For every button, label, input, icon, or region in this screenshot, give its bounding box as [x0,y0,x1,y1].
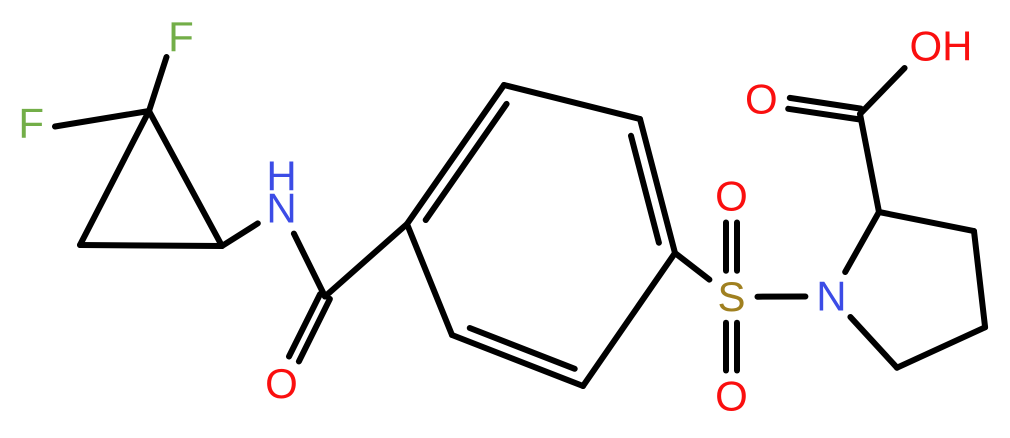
amide C4=O double line2 [299,299,330,362]
pyrrolidine C7-C8 [879,212,974,231]
bond C6-OH [860,68,905,114]
bond S-N2 [758,294,806,300]
pyrrolidine C9-C10 [897,327,985,367]
bond C3-N amide [222,223,258,246]
cyclopropane edge C2-C3 [80,245,222,246]
svg-text:N: N [816,273,846,320]
carboxyl C6=O double line1 [790,98,861,109]
svg-text:F: F [168,13,194,60]
benzene inner double L-T [426,104,507,220]
svg-text:F: F [18,100,44,147]
sulfonyl S=O bottom line2 [734,323,740,371]
carboxyl C6=O double line2 [788,109,859,120]
benzene edge L-T [407,85,504,224]
svg-text:O: O [745,75,778,122]
pyrrolidine C10-N2 [850,317,897,368]
bond N-C4 amide [294,234,325,297]
svg-text:N: N [266,185,296,232]
pyrrolidine N2-C7 [845,212,879,272]
pyrrolidine C8-C9 [974,231,985,327]
benzene edge BL-L [407,224,452,335]
benzene inner double TR-R [631,136,659,243]
sulfonyl S=O bottom line1 [723,323,729,371]
benzene inner double B-BL [470,328,575,369]
sulfonyl S=O top line1 [734,223,740,271]
bond C7-C6 [860,114,879,212]
svg-text:O: O [265,360,298,407]
sulfonyl S=O top line2 [723,223,729,271]
bond C4-ring [325,224,407,297]
benzene edge B-BL [452,335,583,386]
benzene edge R-B [583,253,675,386]
svg-text:O: O [715,173,748,220]
benzene edge T-TR [504,85,640,119]
cyclopropane edge C1-C2 [80,111,149,245]
bond C1-F2 [55,111,149,127]
svg-text:OH: OH [910,23,973,70]
svg-text:S: S [717,273,745,320]
benzene edge TR-R [640,119,675,253]
bond ring-S [675,253,709,280]
svg-text:O: O [715,373,748,420]
cyclopropane edge C1-C3 [149,111,222,246]
bond C1-F1 [149,57,167,111]
amide C4=O double line1 [289,294,320,356]
